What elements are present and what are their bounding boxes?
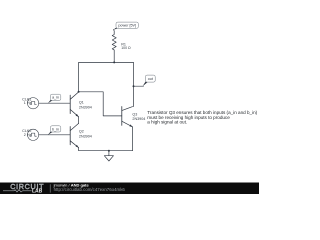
svg-text:b_in: b_in (52, 127, 59, 131)
flag a_in (48, 94, 61, 103)
transistor Q1 (70, 92, 78, 117)
transistor Q2 (70, 123, 78, 147)
wire power flag to resistor (112, 30, 115, 33)
wire CLK1 to Q1 base (39, 102, 70, 104)
svg-text:Q2: Q2 (79, 130, 84, 134)
footer bar (0, 183, 259, 195)
svg-text:LAB: LAB (32, 189, 43, 194)
transistor Q3 (122, 107, 133, 127)
ground (104, 151, 113, 161)
junction node Q1 collector (78, 91, 80, 93)
clock source CLK2 (27, 129, 38, 140)
svg-text:2N3904: 2N3904 (79, 135, 92, 139)
svg-text:out: out (148, 77, 153, 81)
wire top rail (79, 62, 134, 106)
wire out stub (134, 85, 144, 87)
svg-text:http://circuitlab.com/c47exn76: http://circuitlab.com/c47exn76o4mk6 (54, 187, 126, 192)
clock source CLK1 (27, 98, 38, 109)
resistor R1 (112, 33, 116, 51)
footer divider (49, 184, 51, 192)
svg-text:a_in: a_in (52, 96, 59, 100)
svg-text:Q1: Q1 (79, 101, 84, 105)
flag b_in (48, 126, 61, 135)
junction node R1/rail (113, 61, 115, 63)
wire R1 bottom lead (113, 51, 115, 63)
flag power (113, 22, 138, 30)
annotation text block (147, 110, 257, 124)
junction node out (133, 85, 135, 87)
wire Q1 emitter to Q2 collector (78, 117, 80, 124)
flag out (143, 75, 156, 86)
footer logo wire glyph (3, 190, 32, 192)
wire Q1 collector to Q3 base (79, 92, 122, 116)
wire CLK2 to Q2 base (39, 134, 70, 136)
svg-text:100 Ω: 100 Ω (121, 46, 131, 50)
svg-text:1 Hz: 1 Hz (24, 101, 32, 105)
svg-text:power [5V]: power [5V] (118, 24, 136, 28)
svg-text:2N3904: 2N3904 (79, 106, 92, 110)
svg-text:2 Hz: 2 Hz (24, 133, 32, 137)
svg-text:a high signal at out.: a high signal at out. (147, 120, 187, 125)
junction node ground (108, 150, 110, 152)
wire bottom rail (79, 127, 133, 151)
svg-text:2N3904: 2N3904 (132, 117, 145, 121)
